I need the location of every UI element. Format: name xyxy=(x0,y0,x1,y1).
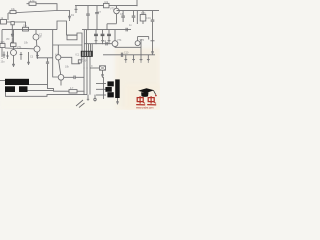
svg-text:10u: 10u xyxy=(1,61,6,64)
svg-text:B1404: B1404 xyxy=(81,60,89,63)
svg-text:www.cndzz.com: www.cndzz.com xyxy=(136,106,153,110)
svg-text:VT3: VT3 xyxy=(110,8,115,11)
svg-text:VT4: VT4 xyxy=(117,39,122,42)
svg-text:IC1: IC1 xyxy=(76,54,80,57)
svg-text:VT5: VT5 xyxy=(140,39,145,42)
svg-text:C10: C10 xyxy=(124,51,129,54)
svg-text:4.7k: 4.7k xyxy=(0,41,5,44)
svg-text:VT1: VT1 xyxy=(17,46,22,49)
svg-text:4.7k: 4.7k xyxy=(141,12,146,15)
svg-text:VD: VD xyxy=(6,38,10,41)
svg-text:4.7k: 4.7k xyxy=(30,0,35,3)
svg-text:0.01: 0.01 xyxy=(146,17,151,20)
